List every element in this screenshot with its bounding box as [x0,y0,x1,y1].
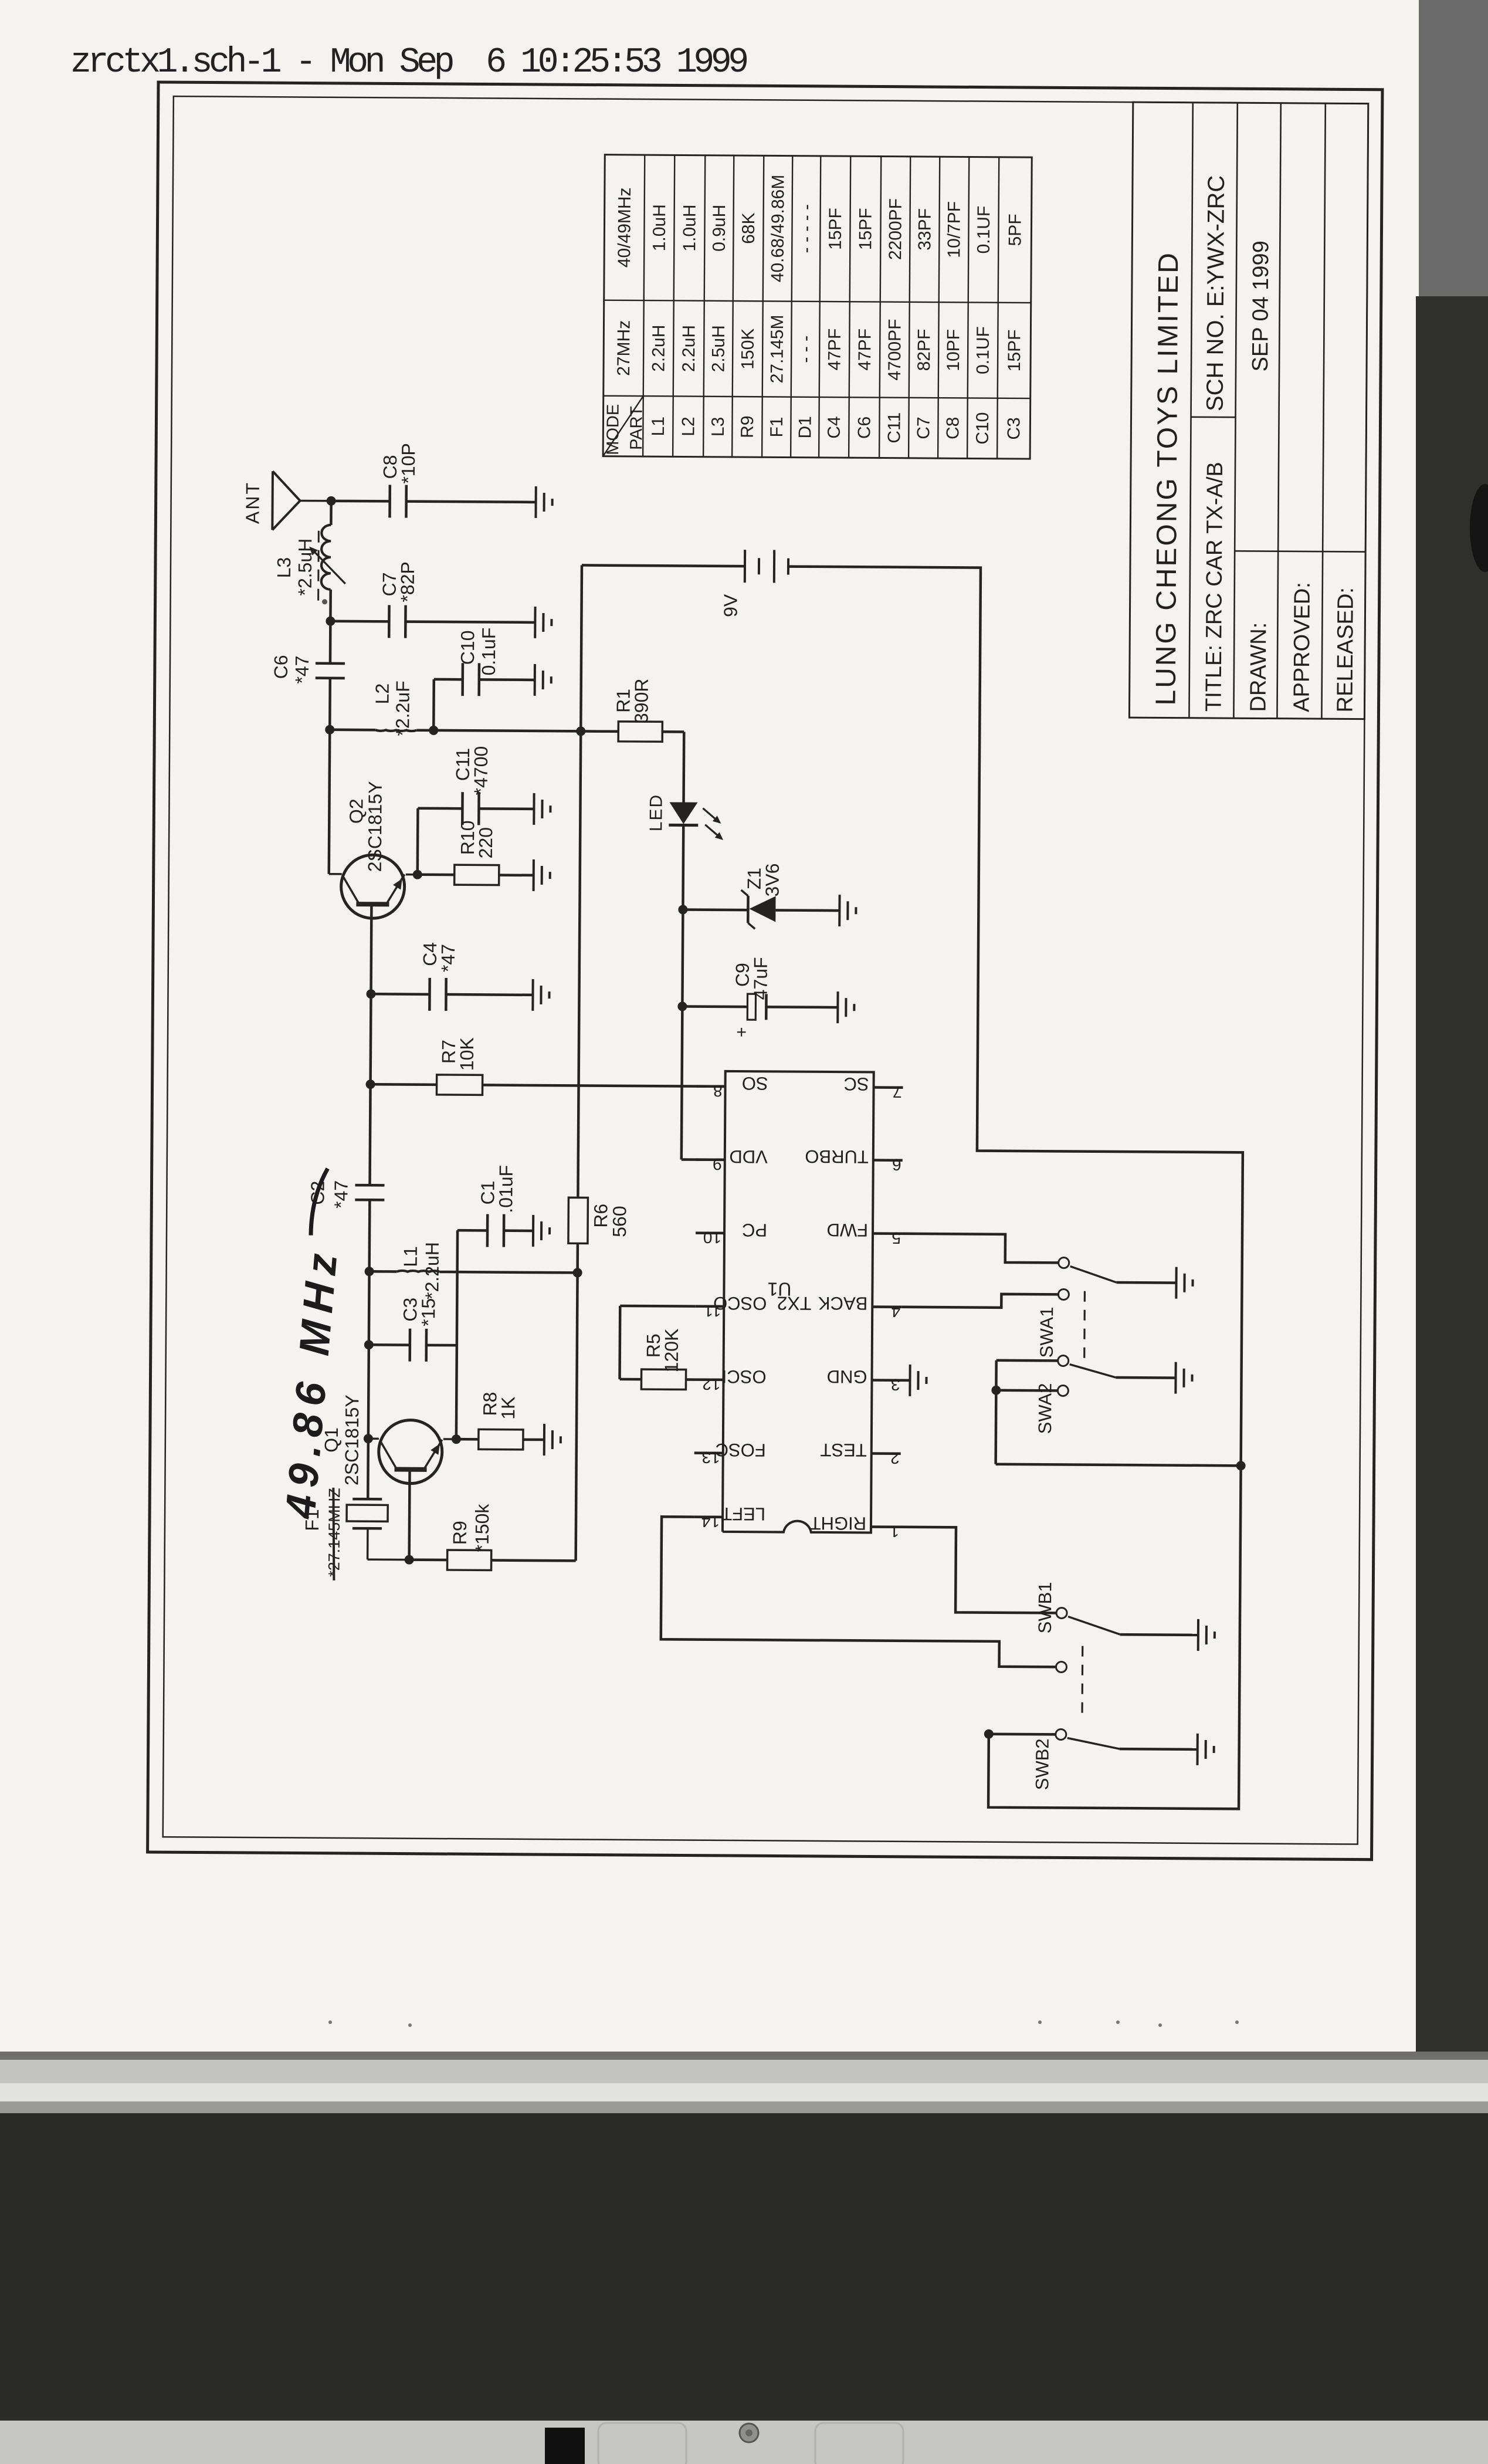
LED arrows [703,808,723,840]
svg-text:SWB2: SWB2 [1032,1738,1053,1790]
svg-text:Q2: Q2 [345,798,367,824]
ground SWA2 [1175,1362,1192,1394]
inductor L2 [330,730,433,732]
label C9 value [750,957,771,1000]
svg-text:1.0uH: 1.0uH [680,204,699,251]
wire C6 to L2 node [328,678,331,730]
svg-text:C6: C6 [270,655,292,679]
LED diode [669,802,698,825]
wire R5 to pin11 [620,1306,696,1380]
svg-text:*15: *15 [418,1298,439,1326]
svg-text:SC: SC [843,1074,869,1094]
label C3 [399,1298,421,1322]
label C3 value [418,1298,439,1326]
wire node to C7 [330,620,389,623]
resistor R10 [455,865,499,885]
label C8 [379,455,401,479]
svg-text:2.2uH: 2.2uH [649,325,669,372]
label C10 [457,630,478,665]
label Z1 value [762,863,783,896]
node C7 junction [326,617,335,626]
label C4 [419,942,440,966]
wire R9 to rail [492,1559,576,1562]
svg-text:2200PF: 2200PF [886,198,906,260]
label Q2 type [364,781,386,872]
node antenna junction [327,496,336,506]
svg-text:C7: C7 [914,417,933,439]
pin label RIGHT [809,1513,866,1534]
ground SWB1 [1198,1619,1215,1651]
wire SWB1 arm to ground [1120,1633,1198,1636]
ground SWA1 [1176,1267,1192,1299]
wire to C3 [369,1343,410,1346]
pin label OSCI [722,1366,767,1387]
pin label LEFT [721,1504,765,1524]
label L3 value [294,539,316,596]
wire C4 to ground [446,993,533,996]
svg-text:.01uF: .01uF [495,1165,516,1213]
node R7 junction [366,1079,375,1089]
svg-text:RIGHT: RIGHT [809,1513,866,1534]
pin label BACK [818,1293,867,1314]
svg-text:C10: C10 [457,630,478,665]
svg-text:1K: 1K [497,1396,518,1419]
wire SWB2 arm to ground [1120,1748,1198,1751]
ground SWB2 [1198,1734,1214,1765]
pin number 2 [890,1449,900,1467]
svg-text:R9: R9 [738,415,757,438]
pin number 12 [702,1375,720,1393]
L3 tuning dashed line [317,526,320,601]
label C8 value [398,443,419,484]
wire L2 to supply rail [433,730,581,732]
svg-text:47PF: 47PF [855,329,875,371]
svg-text:*4700: *4700 [470,746,492,796]
svg-text:150K: 150K [738,329,758,370]
wire R1 to LED [662,732,684,802]
wire C1 to ground [504,1229,533,1232]
svg-text:SCH NO. E:YWX-ZRC: SCH NO. E:YWX-ZRC [1202,175,1229,411]
pin 3 (GND) stub [872,1379,901,1382]
svg-text:8: 8 [713,1082,723,1100]
pin number 3 [891,1376,900,1394]
svg-text:4: 4 [892,1302,901,1321]
node SWA2 link junction [991,1386,1001,1395]
svg-text:DRAWN:: DRAWN: [1246,622,1271,712]
svg-text:TEST: TEST [820,1440,867,1460]
switch SWA1 arm [1070,1267,1117,1282]
node Q2 emitter junction [413,870,422,879]
capacitor C9 [732,994,766,1037]
header filename text [70,43,747,83]
wire supply rail right [578,565,582,1197]
svg-text:0.1UF: 0.1UF [973,326,992,374]
svg-text:C3: C3 [1004,417,1023,440]
node Q1 base junction [405,1555,414,1565]
crystal F1 [347,1499,410,1560]
label C1 [477,1180,498,1204]
label R5 [643,1333,664,1358]
svg-text:ANT: ANT [242,481,263,524]
wire base to R9 [409,1558,448,1561]
label R5 value [661,1329,682,1373]
label C7 value [397,561,418,603]
label R8 [479,1392,500,1416]
transistor Q2 [328,855,418,919]
wire to Z1 [683,908,748,911]
inductor L1 [370,1271,578,1273]
pin label GND [827,1366,867,1387]
label R6 value [609,1206,630,1237]
svg-text:*47: *47 [438,944,459,972]
svg-text:*2.2uF: *2.2uF [392,681,413,736]
svg-text:*2.5uH: *2.5uH [294,539,316,596]
wire pin3 to ground [901,1379,910,1382]
label SWA1 [1036,1307,1057,1358]
contact SWA2 b [1057,1385,1068,1396]
L3 tuning arrow [309,547,345,584]
node Z1 junction [678,905,687,914]
label L3 [273,557,294,578]
label Z1 [744,868,765,890]
wire base net R7 to C2 [370,1084,371,1185]
svg-text:15PF: 15PF [1005,329,1024,371]
pin label TURBO [805,1146,869,1167]
node Q1 collector junction [364,1434,373,1443]
svg-text:PART: PART [627,406,646,450]
pin label PC [742,1220,767,1240]
wire antenna to L3 [330,501,333,525]
svg-text:*47: *47 [330,1180,351,1209]
label ANT [242,481,263,524]
wire L3 to C6 [329,590,332,662]
ganged switch dashed link SWA [1083,1286,1086,1358]
resistor R1 [618,722,662,742]
label C2 [307,1181,328,1205]
capacitor C8 [389,485,406,517]
wire C7 to ground [405,622,535,622]
pin label FWD [826,1220,868,1240]
node C9 junction [677,1001,687,1011]
svg-text:zrctx1.sch-1 - Mon Sep 6 10:2: zrctx1.sch-1 - Mon Sep 6 10:25:53 1999 [70,43,747,83]
node SWB return junction [984,1729,994,1739]
rotated schematic group [148,82,1382,1860]
svg-text:0.9uH: 0.9uH [710,205,729,252]
svg-text:SO: SO [742,1073,768,1094]
svg-text:FOSC: FOSC [716,1440,766,1461]
pin number 4 [892,1302,901,1321]
wire antenna node to C8 [331,500,390,503]
svg-text:TX2: TX2 [777,1292,812,1314]
svg-text:C8: C8 [943,417,962,440]
svg-text:F1: F1 [767,417,787,437]
svg-text:TITLE: ZRC CAR TX-A/B: TITLE: ZRC CAR TX-A/B [1201,462,1228,712]
switch SWA2 arm [1070,1365,1116,1377]
label Q1 [321,1427,342,1453]
svg-text:14: 14 [701,1512,720,1531]
label C2 value [330,1180,351,1209]
capacitor C4 [429,978,446,1011]
pin number 11 [704,1302,721,1320]
switch SWB2 arm [1067,1738,1120,1749]
wire rail to battery [582,565,745,566]
svg-text:12: 12 [702,1375,720,1393]
wire pin1 to SWB1 [900,1527,1057,1613]
svg-text:40/49MHz: 40/49MHz [615,187,635,268]
wire VDD net to pin 9 [682,1158,725,1161]
node C4 junction [366,989,375,999]
IC U1 TX2 body [723,1071,874,1533]
wire supply rail left [576,1243,578,1561]
node L2 junction [325,725,334,735]
wire emitter to C11 [418,808,463,875]
wire R7 to IC pin 8 [483,1085,726,1087]
scanner lid tab [545,2428,585,2464]
label R1 value [631,678,652,723]
wire base net C4 to R7 [369,994,372,1084]
svg-text:APPROVED:: APPROVED: [1289,582,1314,712]
node SWA return junction [1236,1461,1246,1470]
label R9 value [472,1503,493,1552]
antenna ANT symbol [272,471,327,530]
svg-text:5PF: 5PF [1005,214,1025,246]
pin 5 (FWD) stub [873,1232,902,1235]
label C11 [452,748,473,781]
wire collector node to F1 [367,1439,370,1499]
wire LED cathode to VDD net [682,825,683,1159]
svg-text:9V: 9V [720,594,741,617]
wire C11 to ground [479,807,534,810]
wire Z1 to ground [775,909,839,912]
capacitor C7 [389,605,405,638]
svg-text:TURBO: TURBO [805,1146,869,1167]
wire L2 node to C10 [433,679,463,730]
battery 9V [745,550,788,583]
pin label SO [742,1073,768,1094]
paper dust specks [328,2020,1239,2027]
pin 10 (PC) stub [696,1231,724,1234]
contact SWB2 a [1056,1729,1066,1739]
node L2 bottom junction [429,726,438,735]
wire C8 to ground [406,502,536,502]
ground C11 [534,793,550,825]
label C10 value [478,628,499,676]
wire Q2 base [370,904,372,994]
contact SWB1 a [1056,1607,1067,1618]
svg-text:*82P: *82P [397,561,418,603]
scanner background right strip [1416,0,1488,2053]
contact SWA1 a [1059,1257,1069,1268]
wire C2 to Q1 collector net [368,1200,370,1439]
label F1 [301,1509,323,1531]
pin 2 (TEST) stub [872,1452,901,1455]
wire Q1 base [408,1470,411,1560]
ground C10 [535,664,551,696]
resistor R5 [641,1369,686,1389]
pin 12 (OSCI) stub [695,1378,724,1381]
wire SWA2 arm to ground [1116,1376,1176,1379]
svg-text:OSCO: OSCO [713,1293,767,1314]
wire SWB2 riser [989,1732,1056,1735]
wire R10 to ground [499,874,534,876]
label R1 [612,689,633,713]
label C9 [732,963,753,987]
wire SWA2 to return rail [996,1464,1241,1466]
schematic outer border frame [148,82,1382,1860]
zener diode Z1 [741,890,775,929]
ground pin3 GND [910,1365,926,1396]
transistor Q1 [368,1420,456,1484]
wire to C1 [457,1229,487,1232]
contact SWA1 b [1058,1289,1069,1299]
handwritten 49.86 MHz [277,1168,347,1521]
scanner bed bottom bands [0,2052,1488,2464]
ganged switch dashed link SWB [1081,1638,1083,1713]
label L1 [400,1246,421,1267]
inductor L3 coil [321,525,331,590]
svg-text:68K: 68K [739,212,758,244]
switch SWB1 arm [1068,1617,1120,1635]
svg-text:BACK: BACK [818,1293,867,1314]
label TX2 [777,1292,812,1314]
pin number 6 [892,1156,901,1174]
label C7 [379,572,400,596]
ground C9 [838,991,854,1023]
wire SWA2 a riser [996,1359,1058,1362]
ground R10 [534,859,550,891]
label SWB2 [1032,1738,1053,1790]
capacitor C2 [355,1185,384,1200]
pin number 13 [701,1448,720,1467]
ground Z1 [839,895,856,926]
svg-text:*150k: *150k [472,1503,493,1552]
schematic inner border frame [163,96,1368,1844]
pin number 8 [713,1082,723,1100]
pin label OSCO [713,1293,767,1314]
capacitor C10 [463,663,479,696]
wire battery return [781,567,1246,1809]
svg-text:PC: PC [742,1220,767,1240]
wire C10 to ground [479,678,535,681]
svg-text:27MHz: 27MHz [614,320,634,376]
wire base net to R7 [371,1083,437,1086]
ground C1 [533,1215,550,1247]
svg-text:- - -: - - - [796,336,815,363]
resistor R8 [479,1429,523,1449]
svg-text:C6: C6 [855,417,874,439]
svg-text:C11: C11 [884,412,904,444]
svg-text:82PF: 82PF [914,329,934,371]
svg-text:L1: L1 [400,1246,421,1267]
svg-text:220: 220 [475,827,496,859]
svg-text:390R: 390R [631,678,652,723]
svg-text:1.0uH: 1.0uH [650,204,669,251]
svg-text:L1: L1 [649,417,668,436]
label L1 value [421,1242,443,1299]
wire C9 to ground [766,1006,838,1008]
svg-text:47PF: 47PF [825,329,845,371]
svg-text:2: 2 [890,1449,900,1467]
ground C8 [535,486,552,518]
label R10 value [475,827,496,859]
label R8 value [497,1396,518,1419]
node L1 rail junction [573,1268,582,1277]
wire to C9 [682,1005,747,1008]
label C6 value [292,655,313,683]
pin 4 (BACK) stub [872,1305,901,1308]
label 9V [720,594,741,617]
svg-text:10K: 10K [456,1037,477,1071]
label C6 [270,655,292,679]
svg-text:FWD: FWD [826,1220,868,1240]
svg-text:47uF: 47uF [750,957,771,1000]
pin number 10 [703,1228,721,1247]
wire emitter to R10 [418,873,455,876]
pin number 14 [701,1512,720,1531]
node L1 junction [365,1267,374,1276]
label Q2 [345,798,367,824]
svg-text:5: 5 [892,1229,901,1247]
pin 9 (VDD) stub [696,1158,725,1161]
pin 13 (FOSC) stub [694,1451,723,1454]
pin number 9 [713,1155,722,1173]
label R7 value [456,1037,477,1071]
svg-text:4700PF: 4700PF [885,319,905,381]
parts value table [603,155,1032,459]
pin label SC [843,1074,869,1094]
node R1 rail junction [576,726,585,736]
label L2 [372,683,393,705]
node Q1 emitter junction [452,1434,461,1444]
svg-text:6: 6 [892,1156,901,1174]
wire L2 node to Q2 collector [329,730,330,874]
resistor R7 [436,1075,482,1095]
wire pin14 to SWB1 b [661,1517,1057,1667]
label LED [646,794,666,832]
wire SWA2 b riser [996,1389,1057,1392]
label R7 [438,1040,459,1064]
capacitor C6 [316,664,345,678]
wire pin12 to R5 [686,1378,695,1381]
svg-text:L2: L2 [372,683,393,705]
svg-text:2.2uH: 2.2uH [679,325,699,372]
svg-text:R9: R9 [449,1521,470,1545]
svg-text:- - - - -: - - - - - [796,204,816,253]
svg-text:2SC1815Y: 2SC1815Y [364,781,386,872]
contact SWB1 b [1056,1661,1066,1672]
svg-text:120K: 120K [661,1329,682,1373]
ground C7 [535,607,551,638]
wire rail to R1 [581,730,618,733]
wire C3 to emitter line [426,1344,457,1347]
title block [1129,102,1368,719]
wire R8 to ground [523,1439,544,1441]
svg-text:10/7PF: 10/7PF [944,201,964,258]
svg-text:SWA2: SWA2 [1035,1383,1056,1434]
pin number 5 [892,1229,901,1247]
svg-text:OSCI: OSCI [722,1366,767,1387]
svg-text:27.145M: 27.145M [767,314,787,383]
label C11 value [470,746,492,796]
svg-text:2SC1815Y: 2SC1815Y [341,1395,362,1485]
wire SWA1 arm to ground [1117,1281,1177,1284]
capacitor C3 [410,1329,426,1362]
wire pin4 to SWA1 b [901,1294,1058,1308]
svg-text:10PF: 10PF [944,329,963,371]
pin 1 (RIGHT) stub [871,1525,900,1528]
label R9 [449,1521,470,1545]
svg-text:L3: L3 [709,417,728,437]
